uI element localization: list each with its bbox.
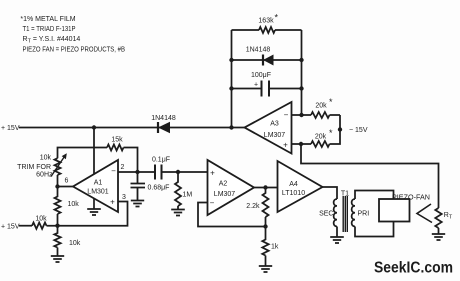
wire SEC bottom to ground <box>336 227 338 237</box>
svg-text:20k: 20k <box>315 103 327 110</box>
wire A1 V+ supply drop <box>93 128 95 175</box>
piezo fan airflow wedge <box>417 204 432 223</box>
transformer T1 secondary coil <box>334 199 337 227</box>
capacitor 0.68uF <box>131 172 146 200</box>
wire pot top to 15k line <box>58 148 108 159</box>
pot wiper arrow <box>51 157 65 177</box>
resistor 1M <box>175 172 181 209</box>
wire diode branch <box>232 59 302 61</box>
wire 20k lower to -15V node <box>330 115 341 144</box>
svg-text:T1 = TRIAD F-131P: T1 = TRIAD F-131P <box>23 26 76 33</box>
resistor 20k upper <box>311 112 330 118</box>
wire A4 output to T1 secondary <box>323 187 338 199</box>
resistor 20k lower <box>311 141 330 147</box>
diode 1N4148 feedback <box>262 55 264 66</box>
svg-text:A3: A3 <box>270 121 279 128</box>
thermistor RT <box>435 208 441 234</box>
svg-text:10k: 10k <box>35 216 47 223</box>
capacitor 0.1uF <box>155 165 162 180</box>
svg-text:1M: 1M <box>183 192 193 199</box>
svg-text:1N4148: 1N4148 <box>151 115 176 122</box>
svg-text:PIEZO-FAN: PIEZO-FAN <box>392 195 430 202</box>
wire +15V rail to A3 output <box>19 127 245 129</box>
transformer T1 primary coil <box>352 199 355 227</box>
svg-text:PRI: PRI <box>358 211 370 218</box>
svg-text:−: − <box>284 111 289 120</box>
svg-text:LM301: LM301 <box>87 189 109 196</box>
node feedback left at output <box>229 125 233 129</box>
wire A3 - input line <box>292 114 312 116</box>
ground 1k <box>259 266 272 272</box>
svg-text:0.68μF: 0.68μF <box>148 184 170 191</box>
node 100uF right <box>299 86 303 90</box>
node A3 + junction <box>299 142 303 146</box>
transformer T1 core <box>343 196 347 232</box>
node +15V rail junction <box>92 125 96 129</box>
svg-text:SEC: SEC <box>319 211 333 218</box>
wire A3 + input line <box>292 143 312 145</box>
svg-text:+ 15V: + 15V <box>1 223 20 230</box>
capacitor 100uF <box>262 81 270 97</box>
svg-text:*: * <box>329 128 333 138</box>
op-amp A3 LM307 <box>245 102 292 154</box>
wire 15k to pin2 node <box>124 148 138 173</box>
potentiometer 10k trim <box>55 158 61 175</box>
svg-text:1N4148: 1N4148 <box>246 47 271 54</box>
node +15V bottom rail junction <box>55 224 59 228</box>
svg-text:10k: 10k <box>69 240 81 247</box>
svg-text:+: + <box>254 82 258 89</box>
svg-text:LM307: LM307 <box>264 132 286 139</box>
wire A1 output to node <box>58 186 74 188</box>
svg-text:60Hz: 60Hz <box>36 171 53 178</box>
svg-text:15k: 15k <box>111 137 123 144</box>
wire +15V bottom lead <box>19 225 32 227</box>
svg-text:0.1μF: 0.1μF <box>152 157 170 164</box>
resistor 10k bottom feed <box>32 223 47 229</box>
wire pot bottom to node <box>57 175 59 187</box>
ground RT <box>432 234 445 240</box>
wire feedback right vertical <box>301 30 303 115</box>
wire 20k upper corner <box>330 114 341 116</box>
svg-text:100μF: 100μF <box>251 72 271 79</box>
svg-text:−: − <box>210 198 215 207</box>
resistor 10k lower divider <box>54 226 60 256</box>
wire feedback left vertical <box>231 30 233 128</box>
svg-text:A4: A4 <box>289 181 298 188</box>
wire 100uF branch <box>232 88 302 90</box>
wire to thermistor RT <box>301 144 439 208</box>
resistor 2.2k <box>263 188 269 227</box>
resistor 1k <box>262 227 268 266</box>
svg-text:− 15V: − 15V <box>349 127 368 134</box>
svg-text:TRIM FOR: TRIM FOR <box>17 164 51 171</box>
svg-text:2.2k: 2.2k <box>246 203 260 210</box>
node 1M junction <box>176 170 180 174</box>
ground SEC <box>330 237 344 243</box>
node pin2 junction <box>135 170 139 174</box>
svg-text:LT1010: LT1010 <box>282 190 305 197</box>
wire PRI loop to piezo fan <box>355 191 394 237</box>
node A1 output junction <box>55 184 59 188</box>
svg-text:163k: 163k <box>258 18 274 25</box>
svg-text:A2: A2 <box>219 181 228 188</box>
node diode right <box>299 58 303 62</box>
ground 1M <box>171 210 185 216</box>
node A2 output <box>263 185 267 189</box>
svg-text:*: * <box>329 97 333 107</box>
svg-text:+: + <box>110 198 115 207</box>
wire A2 output to A4 <box>254 187 278 189</box>
svg-text:SeekIC.com: SeekIC.com <box>374 260 453 277</box>
op-amp A4 LT1010 <box>278 161 323 212</box>
svg-text:+ 15V: + 15V <box>1 125 20 132</box>
resistor 10k upper divider <box>55 187 61 226</box>
ground 0.68uF <box>131 201 144 207</box>
wire A2 feedback loop <box>198 203 266 227</box>
node feedback junction <box>263 224 267 228</box>
node 100uF left <box>229 86 233 90</box>
svg-text:1k: 1k <box>271 244 279 251</box>
svg-text:LM307: LM307 <box>214 191 236 198</box>
resistor 163k <box>259 27 275 33</box>
node -15V junction <box>338 127 342 131</box>
node A3 - junction <box>299 113 303 117</box>
svg-text:A1: A1 <box>94 180 103 187</box>
diode 1N4148 rail <box>157 122 159 133</box>
svg-text:10k: 10k <box>68 201 80 208</box>
svg-text:−: − <box>111 167 116 176</box>
svg-text:PIEZO FAN = PIEZO PRODUCTS, #: PIEZO FAN = PIEZO PRODUCTS, #B <box>23 46 126 53</box>
svg-text:+: + <box>283 141 288 150</box>
node diode left <box>229 58 233 62</box>
svg-text:*: * <box>275 13 279 23</box>
svg-text:+: + <box>210 169 215 178</box>
svg-text:3: 3 <box>122 194 126 201</box>
svg-text:10k: 10k <box>40 154 52 161</box>
op-amp A2 LM307 <box>208 160 255 215</box>
resistor R 15k <box>107 145 124 151</box>
ground left divider <box>51 256 64 262</box>
wire bottom rail to pin3 <box>47 202 128 226</box>
svg-text:2: 2 <box>121 164 125 171</box>
svg-text:20k: 20k <box>315 133 327 140</box>
svg-text:6: 6 <box>65 178 69 185</box>
op-amp A1 LM301 <box>73 160 118 212</box>
wire pin2 to A2 + input <box>118 171 208 173</box>
A1 ground stub <box>87 199 101 216</box>
wire 163k branch <box>232 29 302 31</box>
piezo fan element box <box>379 199 410 222</box>
svg-text:*1% METAL FILM: *1% METAL FILM <box>20 16 75 23</box>
